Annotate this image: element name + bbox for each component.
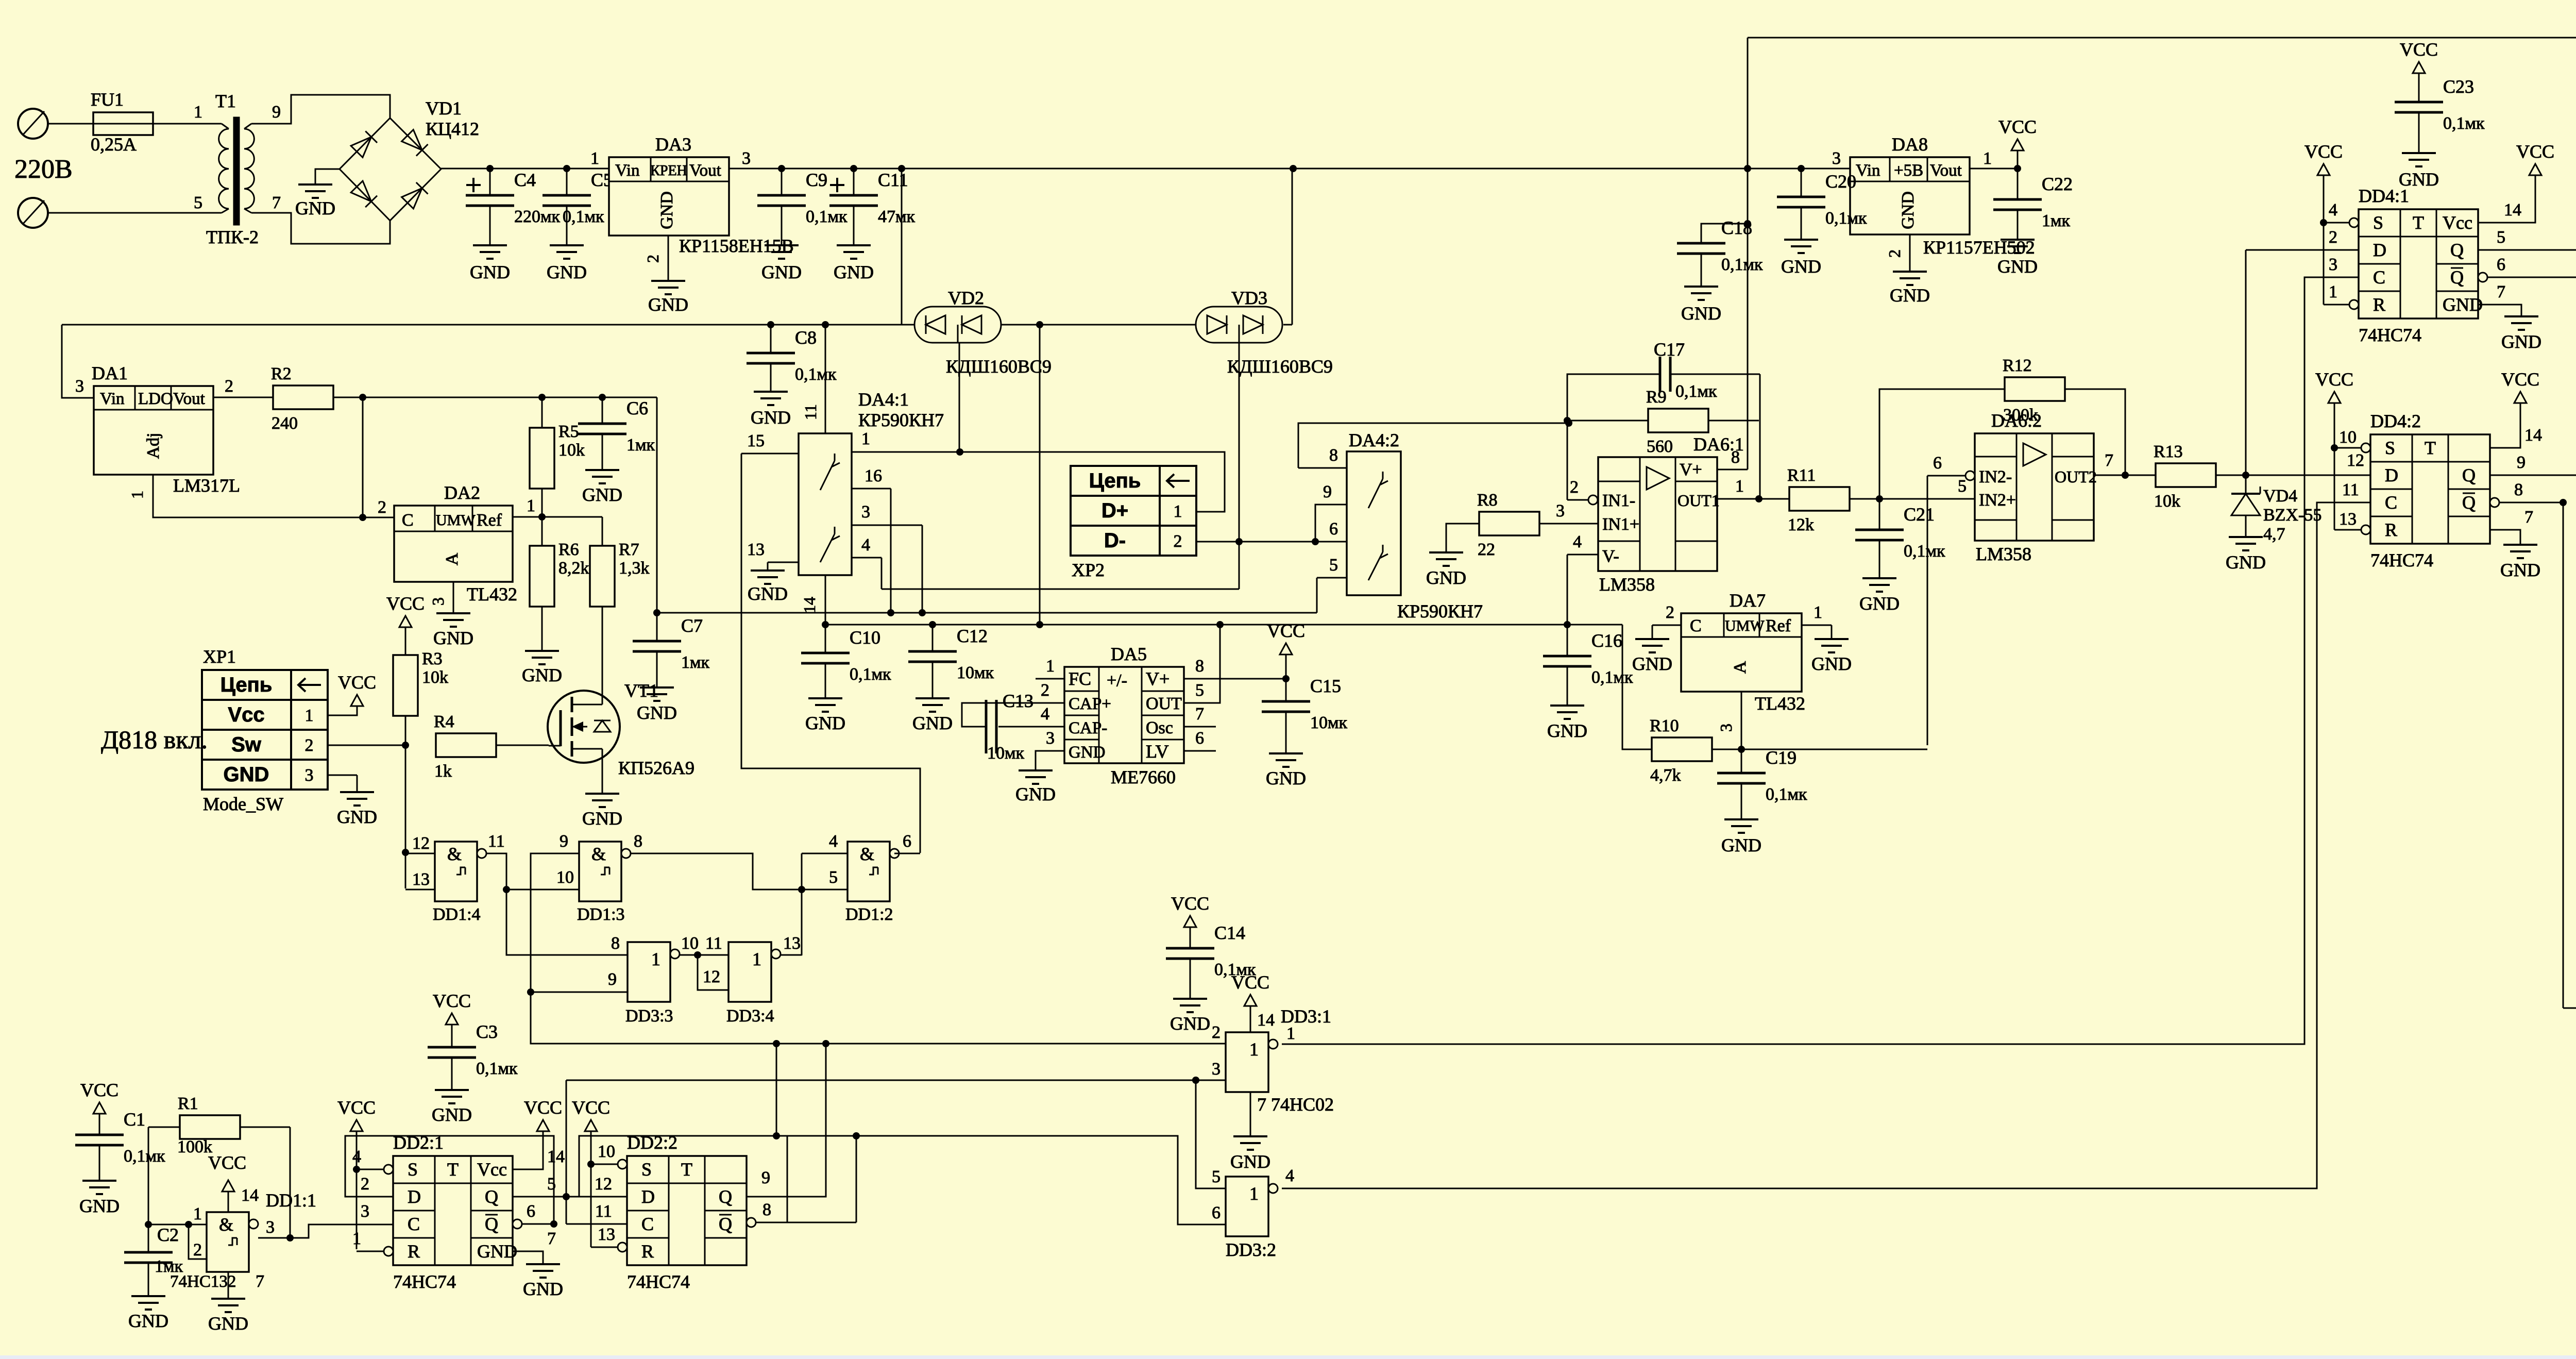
svg-text:7: 7: [256, 1272, 264, 1291]
svg-text:100k: 100k: [177, 1137, 212, 1156]
svg-text:13: 13: [412, 870, 430, 889]
svg-text:OUT2: OUT2: [2055, 467, 2097, 486]
svg-text:GND: GND: [912, 713, 953, 733]
svg-text:Sw: Sw: [231, 733, 262, 756]
svg-text:LM358: LM358: [1599, 574, 1655, 595]
svg-text:0,1мк: 0,1мк: [806, 207, 848, 226]
svg-text:9: 9: [560, 832, 568, 851]
svg-text:GND: GND: [337, 807, 377, 827]
svg-text:XP2: XP2: [1072, 560, 1105, 580]
svg-text:1: 1: [861, 429, 870, 448]
svg-text:R1: R1: [178, 1094, 198, 1113]
svg-text:IN2-: IN2-: [1979, 467, 2012, 486]
svg-text:1: 1: [128, 491, 146, 499]
svg-text:4,7: 4,7: [2263, 525, 2285, 544]
svg-text:КДШ160ВС9: КДШ160ВС9: [1227, 356, 1333, 377]
svg-text:VD2: VD2: [948, 288, 984, 308]
svg-text:1: 1: [352, 1229, 361, 1248]
svg-text:10: 10: [598, 1142, 615, 1161]
svg-text:8,2k: 8,2k: [558, 559, 589, 578]
svg-text:Osc: Osc: [1146, 718, 1173, 737]
svg-text:GND: GND: [805, 713, 845, 733]
svg-text:GND: GND: [522, 665, 562, 685]
svg-text:IN2+: IN2+: [1979, 491, 2016, 510]
svg-text:74HC132: 74HC132: [170, 1272, 236, 1291]
svg-text:GND: GND: [2226, 552, 2266, 573]
svg-text:TL432: TL432: [1755, 693, 1805, 714]
svg-text:D+: D+: [1101, 499, 1128, 522]
svg-text:3: 3: [305, 766, 314, 785]
svg-text:VCC: VCC: [80, 1080, 118, 1100]
svg-text:R2: R2: [271, 364, 292, 383]
svg-text:DD3:2: DD3:2: [1226, 1239, 1276, 1260]
svg-text:GND: GND: [2443, 294, 2483, 315]
svg-text:VCC: VCC: [208, 1152, 246, 1173]
svg-text:Adj: Adj: [144, 433, 163, 459]
svg-text:1: 1: [1249, 1039, 1259, 1060]
svg-text:5: 5: [1195, 681, 1204, 700]
svg-text:VCC: VCC: [2304, 141, 2343, 162]
svg-text:LM317L: LM317L: [173, 475, 240, 496]
svg-text:2: 2: [2329, 228, 2337, 247]
svg-text:DA4:2: DA4:2: [1349, 430, 1399, 450]
svg-text:ТПК-2: ТПК-2: [206, 227, 259, 247]
svg-text:1: 1: [1249, 1183, 1259, 1204]
svg-text:1: 1: [651, 949, 660, 969]
svg-text:14: 14: [800, 597, 819, 613]
svg-text:DA5: DA5: [1111, 644, 1147, 664]
svg-text:A: A: [1731, 661, 1750, 674]
svg-text:Vout: Vout: [689, 161, 721, 180]
svg-text:11: 11: [595, 1202, 612, 1221]
svg-text:2: 2: [1174, 532, 1182, 551]
svg-text:5: 5: [547, 1175, 556, 1194]
svg-text:10: 10: [681, 934, 699, 953]
svg-text:Q: Q: [2462, 465, 2476, 485]
svg-text:6: 6: [1195, 729, 1204, 748]
svg-text:4: 4: [861, 535, 870, 555]
svg-text:D: D: [2385, 465, 2398, 485]
svg-text:1: 1: [590, 149, 599, 168]
svg-text:3: 3: [1046, 729, 1055, 748]
svg-text:C: C: [2373, 267, 2385, 288]
svg-text:DA8: DA8: [1892, 134, 1928, 155]
svg-text:DA7: DA7: [1730, 590, 1766, 611]
svg-text:1мк: 1мк: [2042, 211, 2071, 230]
svg-text:GND: GND: [1069, 743, 1106, 762]
svg-text:Q: Q: [2462, 492, 2476, 513]
svg-text:220В: 220В: [14, 155, 73, 184]
svg-text:10мк: 10мк: [987, 744, 1025, 763]
svg-text:4: 4: [1041, 704, 1049, 724]
svg-text:11: 11: [488, 832, 505, 851]
svg-text:2: 2: [1885, 249, 1904, 258]
svg-text:10k: 10k: [558, 441, 585, 460]
svg-text:1мк: 1мк: [681, 653, 710, 672]
svg-text:1: 1: [1814, 603, 1822, 622]
svg-text:GND: GND: [1015, 784, 1056, 804]
svg-text:T: T: [2425, 438, 2436, 458]
svg-text:1k: 1k: [434, 762, 452, 781]
svg-text:15: 15: [747, 431, 765, 450]
svg-text:8: 8: [634, 832, 642, 851]
svg-text:5: 5: [1329, 556, 1338, 575]
svg-text:C9: C9: [806, 170, 827, 190]
svg-text:3: 3: [1556, 501, 1565, 521]
svg-text:2: 2: [1666, 603, 1674, 622]
svg-text:S: S: [2373, 212, 2383, 233]
svg-text:VD1: VD1: [426, 98, 462, 119]
svg-text:V+: V+: [1680, 460, 1702, 479]
svg-text:16: 16: [865, 466, 882, 485]
svg-text:0,1мк: 0,1мк: [476, 1059, 518, 1078]
svg-text:3: 3: [1212, 1060, 1221, 1079]
svg-text:VCC: VCC: [524, 1097, 562, 1118]
svg-text:VCC: VCC: [2501, 369, 2539, 390]
svg-text:GND: GND: [433, 628, 473, 648]
svg-text:КР1158ЕН15В: КР1158ЕН15В: [679, 236, 794, 256]
svg-text:Ref: Ref: [1766, 616, 1791, 635]
svg-text:DA3: DA3: [655, 134, 691, 155]
svg-text:14: 14: [2524, 426, 2542, 445]
svg-text:D-: D-: [1104, 529, 1126, 552]
svg-text:4: 4: [352, 1147, 361, 1166]
svg-text:GND: GND: [761, 262, 802, 282]
svg-text:74HC74: 74HC74: [627, 1271, 690, 1292]
svg-text:C16: C16: [1591, 630, 1622, 651]
svg-text:GND: GND: [1230, 1151, 1270, 1172]
svg-text:Q: Q: [719, 1214, 732, 1234]
svg-text:2: 2: [305, 736, 314, 755]
svg-text:74HC74: 74HC74: [2359, 325, 2421, 345]
svg-text:C4: C4: [514, 170, 536, 190]
svg-text:+5В: +5В: [1894, 161, 1923, 180]
svg-text:1: 1: [752, 949, 761, 969]
svg-text:VCC: VCC: [386, 593, 425, 614]
svg-text:13: 13: [2339, 510, 2357, 529]
svg-text:1: 1: [193, 1204, 202, 1223]
svg-text:GND: GND: [1781, 256, 1821, 277]
svg-text:VD3: VD3: [1231, 288, 1267, 308]
svg-text:1: 1: [194, 103, 202, 122]
svg-text:10k: 10k: [2154, 492, 2180, 511]
svg-text:C19: C19: [1766, 747, 1797, 768]
svg-text:7: 7: [2497, 282, 2505, 301]
svg-text:1: 1: [1046, 657, 1055, 676]
svg-text:R: R: [2385, 519, 2397, 540]
svg-text:1: 1: [527, 496, 535, 515]
svg-text:12k: 12k: [1788, 515, 1814, 534]
svg-text:1: 1: [1174, 502, 1182, 521]
svg-text:R6: R6: [558, 540, 579, 559]
svg-text:C17: C17: [1654, 339, 1685, 360]
svg-text:7 74HC02: 7 74HC02: [1257, 1094, 1334, 1115]
svg-text:0,1мк: 0,1мк: [1214, 960, 1256, 979]
svg-text:A: A: [443, 552, 462, 565]
svg-text:S: S: [2385, 438, 2395, 458]
svg-text:GND: GND: [295, 198, 335, 219]
svg-text:R5: R5: [558, 422, 579, 441]
svg-text:КРЕН: КРЕН: [650, 163, 687, 179]
svg-text:&: &: [219, 1214, 233, 1235]
svg-text:2: 2: [1041, 681, 1049, 700]
svg-text:DD3:3: DD3:3: [625, 1006, 673, 1026]
svg-text:13: 13: [783, 934, 801, 953]
svg-text:Цепь: Цепь: [221, 674, 273, 696]
svg-text:R10: R10: [1650, 716, 1679, 735]
svg-text:8: 8: [762, 1200, 771, 1219]
svg-text:D: D: [408, 1186, 421, 1207]
svg-text:GND: GND: [657, 191, 676, 229]
svg-text:11: 11: [801, 404, 820, 420]
svg-text:1: 1: [1983, 149, 1992, 168]
svg-text:C3: C3: [476, 1021, 498, 1042]
svg-text:КП526А9: КП526А9: [618, 758, 694, 778]
svg-text:C23: C23: [2443, 76, 2474, 97]
svg-text:Vout: Vout: [1930, 161, 1962, 180]
svg-text:2: 2: [378, 498, 386, 517]
svg-text:13: 13: [598, 1225, 615, 1244]
svg-text:T: T: [447, 1159, 459, 1180]
svg-text:0,1мк: 0,1мк: [850, 665, 891, 684]
svg-text:GND: GND: [748, 583, 788, 604]
svg-text:Vcc: Vcc: [477, 1159, 507, 1180]
svg-text:Q: Q: [719, 1186, 732, 1207]
svg-text:GND: GND: [1681, 303, 1721, 324]
svg-text:0,25А: 0,25А: [91, 134, 137, 155]
svg-text:Q: Q: [2450, 267, 2464, 288]
svg-text:D: D: [641, 1186, 655, 1207]
svg-text:GND: GND: [1811, 653, 1852, 674]
svg-text:14: 14: [1257, 1011, 1275, 1030]
svg-text:ME7660: ME7660: [1111, 767, 1176, 787]
svg-text:VD4: VD4: [2263, 486, 2297, 506]
svg-text:3: 3: [266, 1218, 275, 1237]
svg-text:74HC74: 74HC74: [2370, 550, 2433, 571]
svg-text:4: 4: [1285, 1166, 1294, 1185]
svg-text:3: 3: [1832, 149, 1841, 168]
svg-text:R9: R9: [1646, 388, 1667, 407]
svg-text:LDO: LDO: [138, 390, 173, 408]
svg-text:VCC: VCC: [2400, 39, 2438, 60]
svg-text:5: 5: [829, 868, 838, 887]
svg-text:8: 8: [2514, 480, 2523, 499]
svg-text:1: 1: [2329, 282, 2337, 301]
svg-text:3: 3: [429, 597, 447, 606]
svg-text:9: 9: [608, 970, 617, 989]
svg-text:C: C: [641, 1214, 654, 1234]
svg-text:DD1:4: DD1:4: [433, 905, 481, 924]
svg-text:GND: GND: [1997, 256, 2038, 277]
svg-text:R12: R12: [2003, 356, 2032, 375]
svg-text:FU1: FU1: [91, 89, 124, 110]
svg-text:12: 12: [595, 1175, 612, 1194]
svg-text:7: 7: [2524, 508, 2533, 527]
svg-text:GND: GND: [1266, 768, 1306, 788]
svg-text:7: 7: [547, 1229, 556, 1248]
svg-text:10: 10: [556, 868, 574, 887]
svg-text:3: 3: [75, 377, 84, 396]
svg-text:C: C: [2385, 492, 2397, 513]
svg-text:Mode_SW: Mode_SW: [203, 794, 283, 814]
svg-text:R13: R13: [2154, 442, 2183, 461]
svg-text:0,1мк: 0,1мк: [563, 207, 604, 226]
svg-text:GND: GND: [208, 1313, 248, 1334]
svg-text:S: S: [408, 1159, 418, 1180]
svg-text:КДШ160ВС9: КДШ160ВС9: [946, 356, 1052, 377]
svg-text:74HC74: 74HC74: [393, 1271, 456, 1292]
svg-text:DD3:1: DD3:1: [1281, 1006, 1331, 1027]
svg-text:0,1мк: 0,1мк: [1675, 382, 1717, 401]
svg-text:GND: GND: [582, 484, 622, 505]
svg-text:12: 12: [2347, 451, 2364, 470]
svg-text:R: R: [641, 1241, 654, 1262]
svg-text:C: C: [408, 1214, 420, 1234]
svg-text:UMW: UMW: [436, 512, 476, 529]
svg-text:S: S: [641, 1159, 652, 1180]
svg-text:5: 5: [1958, 477, 1967, 496]
svg-text:0,1мк: 0,1мк: [1904, 542, 1945, 561]
svg-text:560: 560: [1647, 437, 1673, 456]
svg-text:C22: C22: [2042, 174, 2073, 194]
svg-text:GND: GND: [751, 407, 791, 428]
svg-text:C13: C13: [1003, 691, 1033, 711]
svg-text:0,1мк: 0,1мк: [1825, 209, 1867, 228]
svg-text:14: 14: [241, 1186, 259, 1205]
svg-text:9: 9: [761, 1168, 770, 1187]
svg-text:КР590КН7: КР590КН7: [858, 410, 944, 430]
svg-text:VCC: VCC: [572, 1097, 610, 1118]
svg-text:C: C: [402, 511, 414, 530]
svg-text:8: 8: [1329, 446, 1338, 465]
svg-text:XP1: XP1: [203, 646, 236, 667]
svg-text:D: D: [2373, 240, 2386, 260]
svg-text:220мк: 220мк: [514, 207, 561, 226]
svg-text:C6: C6: [626, 398, 648, 418]
svg-text:1,3k: 1,3k: [619, 559, 650, 578]
svg-text:C: C: [1690, 616, 1702, 635]
svg-text:GND: GND: [1426, 567, 1466, 588]
svg-text:DD1:2: DD1:2: [845, 905, 893, 924]
svg-text:GND: GND: [1170, 1013, 1210, 1034]
svg-text:6: 6: [903, 832, 911, 851]
svg-text:UMW: UMW: [1725, 617, 1765, 634]
svg-text:7: 7: [272, 193, 281, 212]
svg-text:TL432: TL432: [467, 584, 517, 605]
svg-text:9: 9: [2517, 453, 2526, 472]
svg-text:Vcc: Vcc: [2443, 212, 2472, 233]
svg-text:GND: GND: [477, 1241, 517, 1262]
svg-text:2: 2: [1212, 1023, 1221, 1042]
svg-text:6: 6: [1933, 454, 1942, 473]
svg-text:CAP-: CAP-: [1069, 719, 1107, 737]
svg-text:DD3:4: DD3:4: [726, 1006, 774, 1026]
svg-text:4: 4: [1573, 532, 1582, 551]
svg-text:2: 2: [643, 255, 662, 263]
svg-text:IN1+: IN1+: [1602, 515, 1639, 534]
svg-text:14: 14: [2504, 200, 2521, 220]
svg-text:Vin: Vin: [615, 161, 640, 180]
svg-text:GND: GND: [547, 262, 587, 282]
svg-text:8: 8: [1195, 657, 1204, 676]
svg-text:&: &: [447, 844, 462, 864]
svg-text:LM358: LM358: [1976, 544, 2031, 564]
svg-text:C2: C2: [157, 1224, 179, 1245]
svg-text:C1: C1: [124, 1109, 145, 1130]
svg-text:Q: Q: [2450, 240, 2464, 260]
svg-text:7: 7: [1195, 704, 1204, 724]
svg-text:C14: C14: [1214, 922, 1245, 943]
svg-text:3: 3: [742, 149, 751, 168]
svg-text:0,1мк: 0,1мк: [1591, 668, 1633, 687]
svg-text:10: 10: [2339, 428, 2357, 447]
svg-text:T: T: [681, 1159, 692, 1180]
svg-text:10мк: 10мк: [1310, 713, 1348, 732]
svg-text:VT1: VT1: [624, 680, 658, 701]
svg-text:0,1мк: 0,1мк: [1721, 255, 1763, 274]
svg-text:R3: R3: [422, 649, 443, 668]
svg-text:DA1: DA1: [92, 363, 128, 383]
svg-text:GND: GND: [128, 1311, 168, 1331]
svg-text:8: 8: [611, 934, 620, 953]
svg-text:10мк: 10мк: [957, 663, 994, 682]
svg-text:R4: R4: [434, 712, 454, 731]
svg-text:V-: V-: [1602, 547, 1619, 566]
svg-text:12: 12: [703, 967, 720, 986]
svg-text:C8: C8: [795, 327, 817, 348]
svg-text:GND: GND: [1547, 720, 1587, 741]
svg-text:Цепь: Цепь: [1089, 469, 1141, 492]
svg-text:КР590КН7: КР590КН7: [1397, 601, 1483, 622]
svg-text:1: 1: [1735, 477, 1744, 496]
svg-text:13: 13: [747, 540, 765, 559]
svg-text:CAP+: CAP+: [1069, 695, 1111, 713]
svg-text:0,1мк: 0,1мк: [795, 365, 837, 384]
svg-text:GND: GND: [1899, 191, 1918, 229]
svg-text:1мк: 1мк: [626, 435, 655, 455]
svg-text:C18: C18: [1721, 217, 1752, 238]
svg-text:22: 22: [1478, 540, 1495, 559]
svg-text:IN1-: IN1-: [1602, 491, 1635, 510]
svg-text:2: 2: [361, 1175, 369, 1194]
svg-text:5: 5: [194, 193, 202, 212]
svg-text:2: 2: [193, 1240, 202, 1260]
svg-text:8: 8: [1731, 448, 1740, 467]
svg-text:C21: C21: [1904, 504, 1935, 525]
svg-text:VCC: VCC: [1998, 116, 2037, 137]
svg-text:Д818 вкл.: Д818 вкл.: [101, 725, 208, 754]
svg-text:9: 9: [1323, 482, 1332, 501]
svg-text:DA2: DA2: [444, 482, 480, 503]
svg-text:GND: GND: [648, 294, 688, 315]
svg-text:R: R: [408, 1241, 420, 1262]
svg-text:240: 240: [272, 414, 298, 433]
svg-text:11: 11: [2342, 480, 2359, 499]
svg-text:OUT1: OUT1: [1677, 491, 1720, 510]
svg-text:GND: GND: [1632, 653, 1672, 674]
svg-text:2: 2: [1570, 478, 1579, 497]
svg-text:R11: R11: [1787, 466, 1816, 485]
svg-text:DD4:2: DD4:2: [2370, 411, 2421, 431]
svg-text:3: 3: [2329, 255, 2337, 274]
svg-text:3: 3: [861, 502, 870, 522]
svg-text:GND: GND: [637, 702, 677, 723]
svg-text:5: 5: [1212, 1167, 1221, 1186]
svg-text:Q: Q: [485, 1214, 498, 1234]
svg-text:VCC: VCC: [1171, 893, 1209, 914]
svg-text:C10: C10: [850, 627, 880, 648]
svg-text:GND: GND: [79, 1196, 120, 1216]
